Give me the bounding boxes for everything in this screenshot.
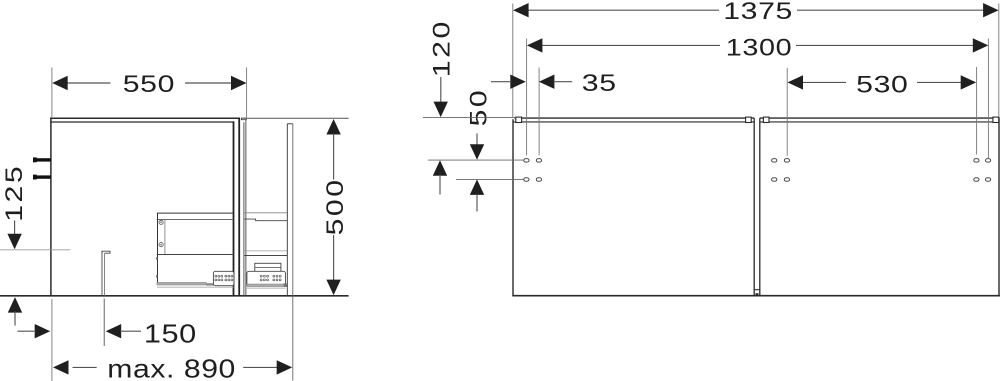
middle divider foot bbox=[754, 290, 761, 296]
dim 125 up arrow tail bbox=[14, 311, 16, 325]
dim 550 left arrow bbox=[52, 76, 67, 90]
dim 150 label bbox=[144, 320, 197, 349]
screw head upper bbox=[159, 220, 163, 224]
slide rail bar left bbox=[157, 282, 214, 285]
ext line hole col2 right box right bbox=[987, 39, 989, 159]
dim 550 right arrow bbox=[231, 76, 247, 90]
mounting hole right box right col2 row2 bbox=[986, 178, 991, 181]
left box top edge lower line bbox=[513, 121, 754, 123]
slide underside line right bbox=[247, 287, 285, 289]
carcass front edge line D bbox=[245, 119, 247, 295]
dim max890 left extension line bbox=[51, 299, 53, 381]
dim 150 leader bbox=[120, 330, 141, 332]
mounting hole right box left col1 row2 bbox=[772, 178, 777, 181]
slide bracket tick upper bbox=[156, 257, 158, 259]
dim 530 left arrow bbox=[788, 75, 804, 89]
dim 530 line bbox=[803, 81, 962, 83]
dim 125 up arrow bbox=[8, 297, 22, 313]
front cabinet right edge bbox=[998, 117, 1000, 296]
hanger notch left box right bbox=[746, 117, 752, 122]
dim 530 label bbox=[856, 70, 908, 97]
dim 120 lower tail bbox=[439, 175, 441, 195]
dim 500 up arrow bbox=[326, 119, 340, 135]
wall bracket 2 bbox=[33, 175, 51, 180]
left box top edge upper line bbox=[515, 117, 755, 119]
hanger notch left box left bbox=[516, 117, 522, 122]
svg-text:550: 550 bbox=[123, 70, 175, 97]
pulled drawer front outer line F / max890 right extension bbox=[292, 124, 294, 381]
ext line cabinet right edge up (1375 right) bbox=[998, 4, 1000, 118]
cabinet side body top panel upper line bbox=[50, 117, 240, 119]
dim 125 label (rotated) bbox=[0, 164, 27, 222]
drawer back panel left edge bbox=[157, 213, 159, 282]
pulled drawer lower line bbox=[244, 255, 287, 257]
dim 125 down arrow bbox=[7, 234, 21, 250]
mounting hole right box left col2 row2 bbox=[784, 178, 789, 181]
svg-text:500: 500 bbox=[321, 177, 348, 235]
drain pipe outer line bbox=[101, 251, 103, 296]
damper box bbox=[255, 263, 281, 271]
dim 150 left-pointing arrow bbox=[106, 324, 122, 338]
mounting hole left box col1 row1 bbox=[524, 159, 529, 162]
dim 50 lower tail bbox=[476, 194, 478, 212]
slide block left (dotted) bbox=[213, 271, 234, 285]
projection line top (500 reference) bbox=[243, 117, 349, 119]
dim 150 extension line bbox=[103, 299, 105, 347]
dim 550 line bbox=[67, 82, 233, 84]
drawer front panel front face (thick vertical) bbox=[238, 118, 240, 296]
mounting hole left box col1 row2 bbox=[524, 178, 529, 181]
hole row1 leader line bbox=[428, 159, 524, 161]
ext line hole col1 right box right bbox=[976, 67, 978, 155]
dim 150 right-pointing arrow bbox=[35, 324, 51, 338]
dim 50 label (rotated) bbox=[464, 88, 491, 127]
svg-text:max. 890: max. 890 bbox=[107, 355, 236, 381]
pulled drawer front top cap bbox=[287, 123, 293, 125]
dim 550 label bbox=[123, 70, 175, 97]
drawer back panel top line 2 bbox=[157, 218, 234, 220]
ext line hole col2 right box left bbox=[786, 68, 788, 156]
dim max890 left arrow bbox=[53, 360, 69, 374]
drawer front panel rear face (thick vertical) bbox=[233, 121, 235, 295]
dim 550 left extension line bbox=[51, 68, 53, 118]
svg-text:120: 120 bbox=[428, 19, 455, 77]
dim 1300 label bbox=[726, 34, 792, 61]
slide bracket tick lower bbox=[156, 275, 158, 277]
drawer back panel inner line bbox=[164, 219, 166, 254]
ext line cabinet left edge up (1375 left) bbox=[512, 4, 514, 118]
svg-text:530: 530 bbox=[856, 70, 908, 97]
dim max890 right arrow bbox=[277, 360, 293, 374]
screw head lower bbox=[159, 243, 163, 247]
right box top edge lower line bbox=[760, 121, 999, 123]
dim 550 right extension line bbox=[246, 68, 248, 118]
ext line hole col1 left box bbox=[526, 39, 528, 156]
dim 530 right arrow bbox=[961, 75, 977, 89]
drawer back panel top line 1 bbox=[157, 212, 234, 214]
mounting hole right box left col2 row1 bbox=[784, 159, 789, 162]
front cabinet bottom line bbox=[512, 295, 1000, 297]
cabinet side body top panel lower line bbox=[50, 121, 234, 123]
mounting hole right box right col1 row2 bbox=[974, 178, 979, 181]
middle divider right line bbox=[759, 118, 761, 296]
mounting hole left box col2 row2 bbox=[536, 178, 541, 181]
middle divider left line bbox=[753, 118, 755, 296]
dim 35 left arrow (pointing right) bbox=[510, 75, 526, 89]
dim 1300 line bbox=[541, 44, 974, 46]
pulled drawer lower light line bbox=[244, 250, 287, 252]
dim 500 label (rotated) bbox=[321, 177, 348, 235]
dim 1375 left arrow bbox=[513, 3, 529, 17]
dim 1375 label bbox=[723, 0, 793, 24]
dim 50 upper tail bbox=[476, 134, 478, 147]
dim 50 up arrow bbox=[470, 179, 484, 195]
hanger notch right box left bbox=[763, 117, 769, 122]
svg-text:125: 125 bbox=[0, 164, 27, 222]
svg-text:1300: 1300 bbox=[726, 34, 792, 61]
mounting hole right box right col2 row1 bbox=[986, 159, 991, 162]
svg-text:150: 150 bbox=[144, 320, 197, 349]
slide underside line left bbox=[157, 286, 234, 288]
cabinet side body left edge (wall side) bbox=[50, 117, 52, 296]
dim 125 line upper bbox=[14, 221, 16, 235]
bottom reference line (cabinet bottom extended left) bbox=[0, 295, 349, 297]
ext line hole col2 left box bbox=[538, 68, 540, 156]
dim 120 down arrow bbox=[434, 102, 448, 118]
carcass front top cap bbox=[241, 118, 246, 120]
mounting hole right box right col1 row1 bbox=[974, 159, 979, 162]
drawer box bottom line bbox=[157, 254, 234, 256]
drain pipe flange bbox=[102, 251, 110, 253]
wall bracket 1 bbox=[33, 157, 51, 162]
dim 1375 right arrow bbox=[983, 3, 999, 17]
dim 35 label bbox=[582, 69, 617, 96]
dim 1300 right arrow bbox=[973, 38, 989, 52]
front cabinet left edge bbox=[512, 119, 514, 296]
pulled drawer top line (light) bbox=[244, 212, 287, 214]
carcass front edge line C bbox=[243, 122, 245, 295]
dim max890 line bbox=[73, 366, 278, 368]
dim 1375 line bbox=[527, 9, 985, 11]
dim 120 upper tail bbox=[440, 77, 442, 106]
right box top edge upper line bbox=[760, 117, 999, 119]
pulled drawer front face line E bbox=[286, 124, 288, 296]
svg-text:50: 50 bbox=[464, 88, 491, 127]
dim 35 left tail bbox=[491, 81, 511, 83]
svg-text:35: 35 bbox=[582, 69, 617, 96]
slide rail bar right bbox=[247, 283, 287, 287]
dim max890 label bbox=[107, 355, 236, 381]
siphon cutout leader line bbox=[0, 249, 70, 251]
svg-text:1375: 1375 bbox=[723, 0, 793, 24]
pulled drawer top step line bbox=[244, 219, 287, 221]
dim 35 right arrow (pointing left) bbox=[539, 75, 555, 89]
dim 120 up arrow bbox=[433, 160, 447, 176]
slide block right (dotted) bbox=[247, 271, 286, 286]
hanger notch right box right bbox=[993, 117, 999, 122]
dim 50 down arrow bbox=[470, 144, 484, 160]
dim 35 leader bbox=[553, 81, 572, 83]
drain pipe inner line bbox=[104, 253, 106, 296]
dim 500 line upper bbox=[333, 134, 335, 180]
top leader line (cabinet top extended left) bbox=[423, 116, 516, 118]
mounting hole right box left col1 row1 bbox=[772, 159, 777, 162]
hole row2 leader line bbox=[456, 178, 524, 180]
mounting hole left box col2 row1 bbox=[536, 159, 541, 162]
dim 120 label (rotated) bbox=[428, 19, 455, 77]
dim 150 right arrow tail bbox=[17, 330, 35, 332]
dim 500 line lower bbox=[333, 235, 335, 282]
dim 1300 left arrow bbox=[527, 38, 543, 52]
dim 500 down arrow bbox=[326, 280, 340, 296]
